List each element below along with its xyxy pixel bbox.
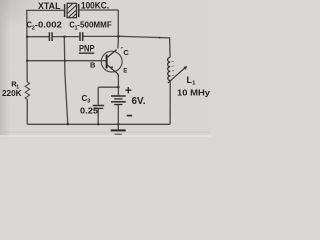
svg-text:B: B [90,60,96,69]
svg-text:-0.002: -0.002 [35,20,63,29]
svg-text:E: E [123,67,127,74]
svg-text:1: 1 [192,81,195,87]
svg-text:100KC.: 100KC. [81,1,109,12]
svg-text:6V.: 6V. [132,96,146,107]
svg-text:220K: 220K [2,89,22,98]
svg-text:0.25: 0.25 [80,106,99,115]
svg-text:10 MHy: 10 MHy [177,87,210,97]
svg-text:3: 3 [87,99,90,105]
svg-text:PNP: PNP [79,44,95,54]
svg-text:XTAL: XTAL [38,1,61,11]
svg-text:-500MMF: -500MMF [77,20,112,29]
svg-text:C: C [123,48,129,57]
